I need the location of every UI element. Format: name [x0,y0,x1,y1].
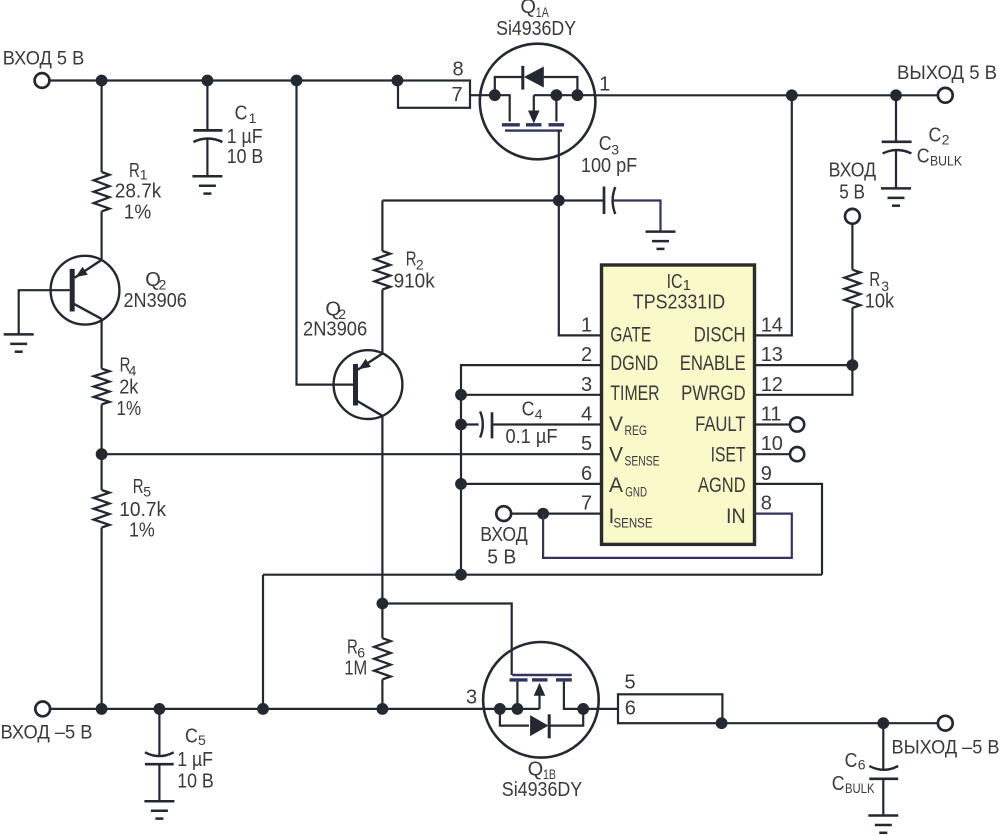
svg-text:7: 7 [581,493,592,515]
svg-text:ВЫХОД 5 В: ВЫХОД 5 В [897,62,997,84]
svg-text:TIMER: TIMER [610,382,659,405]
svg-text:0.1 µF: 0.1 µF [506,426,558,448]
svg-text:SENSE: SENSE [614,515,653,530]
svg-text:5: 5 [581,433,592,455]
wire R2 to Q2 emitter [381,290,383,354]
Q1A source-drain line [480,95,595,121]
svg-text:8: 8 [761,493,772,515]
svg-text:ISET: ISET [711,443,746,466]
Q2 (right) collector diagonal [356,400,383,416]
node junction C2/output rail [890,89,902,101]
svg-text:R: R [869,269,880,291]
label C4 [522,398,543,422]
wire box to Q1A [470,94,480,96]
wire C3 to ground [613,201,660,232]
svg-text:10: 10 [761,433,783,455]
svg-text:DISCH: DISCH [694,324,746,347]
IC pin number 4 [581,404,592,426]
wire R3 to ENABLE node [851,308,853,365]
svg-text:FAULT: FAULT [695,413,746,436]
svg-text:2N3906: 2N3906 [124,290,187,312]
svg-text:TPS2331ID: TPS2331ID [633,292,725,314]
node junction R4/R5/VSENSE [96,448,108,460]
label C3 [599,133,620,158]
wire VSENSE pin 5 to divider [102,453,602,455]
wire Q2 base riser from top rail [297,81,354,385]
IC U1 TPS2331ID body [602,265,755,544]
svg-text:1: 1 [581,314,592,336]
IC pin number 12 [761,374,783,396]
svg-text:4: 4 [535,406,543,422]
svg-text:2: 2 [942,132,950,148]
label IC1 [667,271,691,294]
label 10 В (C5) [177,771,214,793]
svg-text:GATE: GATE [610,324,651,347]
Q1A gate wire down [558,131,560,201]
svg-text:A: A [609,474,623,497]
svg-text:C: C [235,102,248,124]
IC pin label ENABLE (right) [680,352,746,375]
resistor R2 zigzag [375,251,391,290]
label 10k [865,291,895,313]
label 100 pF [581,155,637,177]
svg-text:6: 6 [625,698,636,720]
capacitor C3 plates [604,187,615,215]
svg-text:ENABLE: ENABLE [680,352,746,375]
capacitor C2 top plate wire [895,95,897,140]
label Q2 (right) [325,299,346,322]
label 28.7k [115,181,162,203]
transistor Q2 (left) body circle [51,256,120,325]
node junction C6/output rail [877,717,889,729]
wire C4 left stub [461,423,479,425]
Q2 (right) emitter diagonal with arrow [358,354,383,370]
node junction R5/-5V rail [96,703,108,715]
svg-text:BULK: BULK [930,152,963,168]
svg-text:910k: 910k [394,271,436,293]
IC pin number 3 [581,374,592,396]
node junction Q1A gate/gate node [553,195,565,207]
IC pin label DISCH (right) [694,324,746,347]
svg-text:28.7k: 28.7k [115,181,162,203]
Q1B body diode loop [500,709,583,738]
label Q1A [520,0,549,20]
label 2N3906 (right) [303,319,367,341]
label 10 В (C1) [227,146,264,168]
label Q2 (left) [145,269,166,293]
svg-text:ВХОД: ВХОД [480,524,528,546]
svg-text:2N3906: 2N3906 [303,319,367,341]
capacitor C4 plates [480,411,492,438]
ground below C5 [144,801,174,818]
label 1 µF (C1) [227,126,263,148]
label 910k [394,271,436,293]
label CBULK (C6) [832,773,875,796]
label Si4936DY (Q1A) [496,18,576,40]
label R1 [129,160,148,183]
IC pin number 10 [761,433,783,455]
node junction ENABLE/R3/PWRGD [847,359,859,371]
Q1B source-drain line [483,682,599,709]
node junction box/output rail [716,717,728,729]
svg-text:10k: 10k [865,291,895,313]
label 2N3906 (left) [124,290,187,312]
wire TIMER pin 3 [461,394,602,396]
wire R6 node to Q1B gate [382,604,511,676]
Q1A channel bars [502,123,564,126]
svg-text:6: 6 [581,463,592,485]
resistor R6 zigzag [374,638,391,679]
svg-text:ВЫХОД –5 В: ВЫХОД –5 В [892,737,1000,759]
IC pin number 1 [581,314,592,336]
svg-text:3: 3 [466,687,477,709]
svg-text:5: 5 [198,732,206,748]
svg-text:C: C [832,773,845,795]
Q1B pins 5/6 parallel box [618,694,722,723]
wire GATE pin 1 [559,201,602,336]
svg-text:ВХОД 5 В: ВХОД 5 В [3,48,85,70]
IC pin number 6 [581,463,592,485]
IC pin number 11 [761,404,782,426]
svg-text:REG: REG [625,423,648,438]
svg-text:C: C [929,125,942,147]
capacitor C2 lower wire [895,150,897,188]
svg-text:5 В: 5 В [839,181,865,203]
label R6 [347,636,365,660]
capacitor C1 upper wire [206,81,208,131]
wire DGND pin 2 to bus [461,365,602,575]
wire ENABLE pin 13 [755,364,853,366]
node junction AGND drop/-5V rail [257,703,269,715]
capacitor C1 plates [193,130,222,142]
IC pin number 2 [581,344,592,366]
node junction C5/-5V rail [154,703,166,715]
node junction C4/bus [455,419,467,431]
resistor R1 zigzag [94,172,110,211]
label 1% (R5) [129,520,155,542]
Q1B substrate arrow [534,683,546,709]
svg-text:14: 14 [761,314,783,336]
node junction Q2 base riser/top rail [291,75,303,87]
svg-text:1%: 1% [124,201,152,223]
capacitor C6 upper wire [882,723,884,770]
svg-text:R: R [347,636,358,658]
svg-text:IC: IC [667,271,683,293]
wire +5V output rail [595,94,938,96]
label 1% (R1) [124,201,152,223]
svg-text:ВХОД: ВХОД [829,160,877,182]
wire rail to R1 [100,81,102,173]
wire C4 to VREG pin 4 [492,423,602,425]
label ВЫХОД –5 В [892,737,1000,759]
label 5 В (R3 input) [839,181,865,203]
capacitor C5 upper wire [158,709,160,757]
IC pin number 7 [581,493,592,515]
IC pin number 5 [581,433,592,455]
svg-text:3: 3 [581,374,592,396]
Q1A substrate arrow [528,95,540,123]
svg-text:C: C [185,725,198,747]
capacitor C5 lower wire [158,764,160,801]
label 5 В (Isense) [487,546,516,568]
terminal ВХОД 5 В (enable) [845,209,860,224]
label R4 [120,355,137,379]
node junction TIMER/bus [455,389,467,401]
pin number 1 (Q1A drain) [599,74,610,96]
svg-text:6: 6 [858,757,866,773]
wire R1 to Q2 emitter [100,211,102,260]
capacitor C5 plates [145,752,174,764]
capacitor C2 plates [882,142,912,154]
wire DISCH pin 14 riser [755,95,792,335]
label 1M [344,658,367,680]
svg-text:Si4936DY: Si4936DY [502,779,582,801]
IC pin label AGND(6) [609,474,647,499]
svg-text:5: 5 [143,483,151,499]
terminal FAULT [790,417,804,431]
IC pin label FAULT (right) [695,413,746,436]
pin number 7 (Q1A source) [451,84,462,106]
wire top +5V rail [50,79,399,81]
label R5 [133,476,152,499]
label Si4936DY (Q1B) [502,779,582,801]
wire AGND pin 9 return [755,484,823,575]
wire AGND pin 6 to bus [461,483,602,485]
pin number 5 (Q1B) [624,672,635,694]
label CBULK (C2) [917,145,963,168]
svg-text:2k: 2k [119,377,139,399]
wire node to R6 [381,604,383,639]
label ВЫХОД 5 В [897,62,997,84]
Q1B gate plate [512,674,572,676]
svg-text:AGND: AGND [698,474,746,497]
pin number 3 (Q1B) [466,687,477,709]
IC pin label ISET (right) [711,443,746,466]
wire R4 to VSENSE node [100,404,102,454]
svg-text:100 pF: 100 pF [581,155,637,177]
label ВХОД –5 В [1,722,93,744]
wire R6 to -5V rail [381,679,383,709]
svg-text:13: 13 [761,344,783,366]
svg-text:1: 1 [249,110,257,126]
node junction pins 8-7 rect/top rail [392,75,404,87]
svg-text:1 µF: 1 µF [177,749,213,771]
terminal ВХОД –5 В [35,702,50,717]
svg-text:SENSE: SENSE [625,454,660,469]
wire ISENSE pin 7 [511,512,601,514]
label 1 µF (C5) [177,749,213,771]
svg-text:4: 4 [581,404,592,426]
Q1B channel bars [510,678,572,681]
label TPS2331ID [633,292,725,314]
terminal ВХОД 5 В (top-left input) [35,73,50,88]
IC pin number 8 [761,493,772,515]
IC pin label TIMER [610,382,659,405]
svg-text:V: V [609,413,623,436]
label C2 [929,125,950,148]
pin number 6 (Q1B) [625,698,636,720]
wire -5V output rail [722,722,938,724]
label ВХОД 5 В [3,48,85,70]
node junction R1/top rail [96,75,108,87]
svg-text:DGND: DGND [610,352,658,375]
Q1A gate plate [505,129,562,131]
wire terminal to R3 [851,224,853,270]
svg-text:IN: IN [726,505,746,528]
capacitor C6 lower wire [882,779,884,816]
Q1B node source stub [512,703,524,715]
Q1B node diode/drain [577,703,589,715]
svg-text:10.7k: 10.7k [119,499,167,521]
node junction R6/gate Q1B [377,598,389,610]
node junction bus/AGND return [455,569,467,581]
IC pin label PWRGD (right) [681,382,746,405]
svg-text:R: R [133,476,144,498]
svg-text:7: 7 [451,84,462,106]
svg-text:1 µF: 1 µF [227,126,263,148]
svg-text:PWRGD: PWRGD [681,382,746,405]
node junction DISCH riser/output rail [786,89,798,101]
Q1B node diode/source [494,703,506,715]
Q2 (left) collector diagonal [72,303,101,319]
svg-text:C: C [522,398,535,420]
IC pin label IN (right) [726,505,746,528]
wire gate node to R2 [381,201,383,252]
label 1% (R4) [117,398,142,420]
label C5 [185,725,206,748]
label ВХОД (Isense) [480,524,528,546]
terminal ВХОД 5 В (Isense) [496,506,511,521]
label C6 [845,750,866,773]
ground below C3 [646,232,676,249]
svg-text:ВХОД –5 В: ВХОД –5 В [1,722,93,744]
svg-text:5 В: 5 В [487,546,516,568]
svg-text:1%: 1% [129,520,155,542]
svg-text:12: 12 [761,374,783,396]
svg-text:1: 1 [599,74,610,96]
ground below C2 [881,188,911,205]
IC pin label DGND [610,352,658,375]
Q2 (left) emitter diagonal with arrow [75,260,102,278]
node junction R6/-5V rail [377,703,389,715]
IC pin label AGND (right) [698,474,746,497]
node junction AGND/bus [455,478,467,490]
terminal ISET [790,447,804,461]
svg-text:5: 5 [624,672,635,694]
svg-text:10 В: 10 В [177,771,214,793]
label ВХОД (R3 input) [829,160,877,182]
Q1B left channel stub [516,682,518,709]
pin number 8 (Q1A source) [452,58,463,80]
wire Q2 base to ground [19,290,70,334]
label Q1B [528,759,556,783]
label R3 [869,269,889,294]
label C1 [235,102,257,126]
wire Q2 collector down to R6 node [381,416,383,604]
wire AGND bus horizontal [263,574,822,576]
IC pin label VREG [609,413,647,438]
svg-text:11: 11 [761,404,782,426]
IC pin label GATE [610,324,651,347]
svg-text:GND: GND [625,485,647,500]
svg-text:C: C [917,145,930,167]
ground at Q2 base [4,334,34,351]
terminal ВЫХОД –5 В [938,716,953,731]
wire gate node horizontal [382,199,604,201]
svg-text:Si4936DY: Si4936DY [496,18,576,40]
svg-text:Q: Q [520,0,536,18]
terminal ВЫХОД 5 В [938,88,953,103]
svg-text:1%: 1% [117,398,142,420]
Q1A body diode loop [495,66,578,95]
transistor Q1A Si4936DY body circle [480,44,596,160]
svg-text:2: 2 [581,344,592,366]
IC pin number 14 [761,314,783,336]
Q1A node source [489,89,501,101]
wire VSENSE node to R5 [100,454,102,490]
wire FAULT pin 11 [755,423,791,425]
svg-text:Q: Q [528,759,544,781]
svg-text:10 В: 10 В [227,146,264,168]
svg-text:1M: 1M [344,658,367,680]
svg-text:C: C [845,750,858,772]
wire AGND bus drop to -5V rail [262,575,264,709]
capacitor C6 plates [869,766,898,779]
resistor R5 zigzag [94,490,110,528]
wire Q1B to pins 5/6 box [599,708,618,710]
resistor R3 zigzag [845,270,861,308]
IC pin label ISENSE [609,505,653,530]
svg-text:9: 9 [761,463,772,485]
svg-text:R: R [129,160,140,182]
wire PWRGD pin 12 loop [755,365,853,395]
Q2 (left) base bar [70,269,75,312]
node junction ISENSE/IN loop [537,508,549,520]
label 2k [119,377,139,399]
svg-text:BULK: BULK [845,780,875,796]
label 0.1 µF [506,426,558,448]
wire IN pin 8 loop [543,514,792,558]
svg-text:C: C [599,133,612,155]
Q1A node drain stub [551,89,563,101]
ground below C6 [868,816,898,833]
wire ISET pin 10 [755,453,791,455]
svg-text:8: 8 [452,58,463,80]
capacitor C1 lower wire [206,139,208,176]
IC pin number 13 [761,344,783,366]
node junction C1/top rail [202,75,214,87]
wire -5V input rail [50,708,483,710]
wire Q2 collector to R4 [100,319,102,369]
label R2 [406,248,424,272]
Q1A right channel stub [555,95,557,121]
resistor R4 zigzag [94,369,110,405]
wire R5 to -5V rail [100,528,102,709]
Q2 (right) base bar [353,364,358,406]
Q1A pins 8/7 parallel box [398,81,470,108]
IC pin number 9 [761,463,772,485]
transistor Q1B Si4936DY body circle [483,642,599,758]
transistor Q2 (right) body circle [334,350,403,419]
ground below C1 [192,176,222,193]
svg-text:V: V [609,443,623,466]
Q1A node diode/drain [572,89,584,101]
label 10.7k [119,499,167,521]
IC pin label VSENSE [609,443,660,468]
